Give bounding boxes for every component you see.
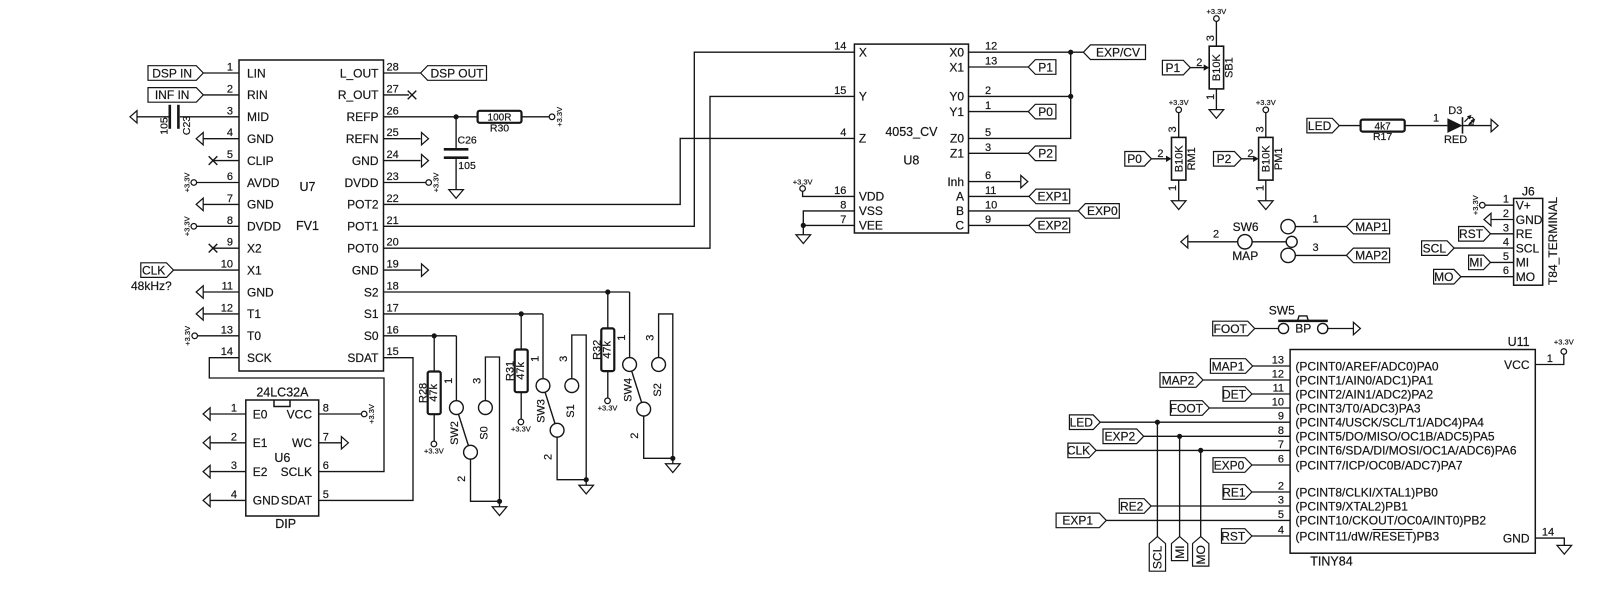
net label MAP1 at U11	[1210, 359, 1252, 374]
svg-text:+3.3V: +3.3V	[555, 107, 564, 127]
svg-text:17: 17	[387, 302, 399, 314]
wire SB1 pin1	[1215, 89, 1217, 110]
wire SW6 to MAP2	[1295, 254, 1346, 256]
label pin1 SW2	[443, 378, 455, 384]
wire U7 pin10	[174, 269, 240, 271]
svg-text:5: 5	[227, 149, 233, 161]
svg-text:11: 11	[1273, 383, 1284, 395]
svg-text:13: 13	[985, 56, 997, 68]
svg-text:EXP1: EXP1	[1062, 514, 1093, 528]
svg-text:GND: GND	[352, 154, 379, 168]
wire U7 pin23	[384, 182, 426, 184]
svg-text:7: 7	[227, 193, 233, 205]
svg-text:+3.3V: +3.3V	[182, 216, 191, 236]
svg-text:4: 4	[1503, 237, 1509, 249]
wire U7 pin4	[203, 138, 239, 140]
svg-text:1: 1	[530, 356, 542, 362]
trimmer SB1 body	[1209, 46, 1235, 89]
svg-text:C26: C26	[458, 134, 477, 146]
svg-text:P2: P2	[1217, 152, 1232, 166]
IC U6 24LC32A body	[246, 386, 319, 531]
net flag MO	[1193, 537, 1209, 567]
switch SW6 contact1 circle	[1281, 219, 1295, 233]
wire J6 pin1	[1485, 204, 1514, 206]
svg-text:9: 9	[227, 237, 233, 249]
svg-text:SW4: SW4	[622, 378, 634, 402]
connector J6 body	[1514, 184, 1560, 285]
wire SW5 out	[1328, 328, 1353, 330]
open arrow Inh	[1021, 175, 1028, 187]
svg-text:4: 4	[1278, 525, 1284, 537]
net label EXP0 at U11	[1213, 458, 1252, 473]
svg-text:1: 1	[616, 335, 628, 341]
wire LED to R17	[1339, 125, 1360, 127]
svg-text:TINY84: TINY84	[1310, 555, 1352, 569]
svg-text:1: 1	[1167, 185, 1179, 191]
svg-text:S1: S1	[364, 307, 379, 321]
junction SW4 ground	[670, 456, 675, 461]
label BP	[1295, 322, 1311, 336]
svg-text:Z0: Z0	[950, 132, 964, 146]
svg-text:T84_TERMINAL: T84_TERMINAL	[1546, 197, 1560, 285]
wire R28 pullup top	[433, 336, 435, 372]
wire U7 pin13	[198, 335, 240, 337]
svg-text:2: 2	[456, 476, 468, 482]
label S2 net name	[652, 383, 664, 396]
wire U6 pin3	[210, 471, 246, 473]
wire J6 pin2	[1491, 219, 1514, 221]
svg-text:25: 25	[387, 127, 399, 139]
svg-text:P1: P1	[1038, 60, 1053, 74]
svg-text:27: 27	[387, 83, 399, 95]
svg-text:15: 15	[834, 85, 846, 97]
wire U7 pin12	[203, 313, 239, 315]
svg-text:13: 13	[1272, 355, 1284, 367]
IC U8 4053_CV body	[854, 44, 968, 233]
svg-text:8: 8	[227, 215, 233, 227]
open arrow pin7 GND	[196, 198, 203, 210]
wire POT0 to U8 Y	[384, 96, 855, 248]
overline RESET	[1373, 529, 1413, 531]
wire REFP	[384, 116, 550, 118]
switch SW5 button	[1298, 316, 1308, 320]
wire U7 pin19	[384, 269, 421, 271]
wire U11 FOOT	[1209, 407, 1290, 409]
svg-text:(PCINT10/CKOUT/OC0A/INT0)PB2: (PCINT10/CKOUT/OC0A/INT0)PB2	[1295, 514, 1486, 528]
label pin1 SW3	[530, 356, 542, 362]
svg-text:E2: E2	[253, 465, 268, 479]
label pin3 SW6	[1312, 242, 1318, 254]
svg-text:VCC: VCC	[287, 407, 313, 421]
svg-text:SW3: SW3	[536, 399, 548, 423]
open arrow U6 pin2	[203, 437, 210, 449]
wire U8 VEE	[803, 224, 854, 226]
wire POT1 to U8 X	[384, 52, 855, 226]
wire U11 LED	[1100, 421, 1290, 423]
svg-text:CLK: CLK	[142, 263, 165, 277]
svg-text:DVDD: DVDD	[247, 220, 281, 234]
svg-text:9: 9	[1278, 411, 1284, 423]
label pin3 SW3	[558, 356, 570, 362]
svg-text:3: 3	[1278, 495, 1284, 507]
svg-text:13: 13	[221, 324, 233, 336]
+3.3V above SB1	[1206, 7, 1226, 21]
wire R_OUT stub	[384, 94, 410, 96]
wire MID left	[137, 116, 169, 118]
svg-text:RE1: RE1	[1222, 485, 1246, 499]
wire SB1 wiper	[1190, 67, 1205, 69]
wire U6 pin1	[210, 413, 246, 415]
switch SW5 right contact	[1318, 323, 1328, 333]
svg-text:R30: R30	[490, 123, 509, 135]
wire R32 pullup top	[607, 292, 609, 328]
svg-text:LED: LED	[1070, 416, 1094, 430]
net label P2 at U8	[1028, 146, 1056, 161]
no-connect R_OUT	[408, 91, 417, 100]
net label MI at J6	[1469, 255, 1491, 270]
svg-text:DET: DET	[1222, 387, 1247, 401]
wire U11 RE1	[1252, 491, 1290, 493]
junction SW2 ground	[497, 499, 502, 504]
U6 pin names and numbers	[231, 403, 329, 508]
wire U7 pin6	[197, 182, 239, 184]
svg-text:J6: J6	[1522, 184, 1535, 198]
svg-text:Y: Y	[859, 90, 867, 104]
label pin2 SW2	[456, 476, 468, 482]
svg-text:(PCINT6/SDA/DI/MOSI/OC1A/ADC6): (PCINT6/SDA/DI/MOSI/OC1A/ADC6)PA6	[1295, 444, 1516, 458]
svg-text:14: 14	[1542, 526, 1554, 538]
svg-text:3: 3	[645, 335, 657, 341]
svg-text:GND: GND	[247, 198, 274, 212]
svg-text:3: 3	[231, 460, 237, 472]
switch SW4 contact 1 circle	[623, 358, 637, 372]
wiper arrowhead SB1	[1204, 64, 1210, 70]
svg-text:D3: D3	[1448, 105, 1462, 117]
svg-text:1: 1	[1433, 112, 1439, 124]
svg-text:P0: P0	[1038, 105, 1053, 119]
svg-text:PM1: PM1	[1273, 147, 1285, 170]
switch SW2 contact 1 circle	[450, 401, 464, 415]
label SW2	[449, 421, 461, 445]
svg-text:SDAT: SDAT	[281, 494, 313, 508]
svg-text:47k: 47k	[602, 340, 614, 358]
svg-text:1: 1	[1312, 213, 1318, 225]
svg-text:48kHz?: 48kHz?	[131, 279, 172, 293]
open arrow J6 GND	[1484, 213, 1491, 225]
svg-text:EXP0: EXP0	[1087, 204, 1118, 218]
wire Y0	[969, 95, 1071, 97]
open arrow MID	[130, 111, 137, 123]
svg-text:Z1: Z1	[950, 147, 964, 161]
svg-text:(PCINT5/DO/MISO/OC1B/ADC5)PA5: (PCINT5/DO/MISO/OC1B/ADC5)PA5	[1295, 430, 1494, 444]
svg-text:S2: S2	[364, 285, 379, 299]
wire SCK to SCLK	[209, 358, 384, 472]
net label P1 at U8	[1028, 60, 1056, 75]
wire S1 net	[384, 313, 544, 315]
svg-text:22: 22	[387, 193, 399, 205]
svg-text:(PCINT0/AREF/ADC0)PA0: (PCINT0/AREF/ADC0)PA0	[1295, 359, 1438, 373]
wire PM1 pin3	[1265, 113, 1267, 138]
svg-text:U11: U11	[1508, 335, 1530, 349]
+3.3V on U8 VDD	[793, 177, 813, 191]
svg-text:6: 6	[1278, 454, 1284, 466]
+3.3V on REFP	[549, 107, 564, 127]
label pin3 SW2	[471, 378, 483, 384]
svg-text:5: 5	[985, 127, 991, 139]
svg-text:+3.3V: +3.3V	[1554, 337, 1574, 346]
svg-text:GND: GND	[352, 263, 379, 277]
+3.3V on U6 VCC	[361, 404, 376, 424]
open arrow SW6	[1181, 236, 1188, 248]
resistor R31	[505, 350, 528, 393]
svg-text:SCL: SCL	[1423, 241, 1447, 255]
svg-text:SDAT: SDAT	[347, 351, 379, 365]
wire U7 pin2	[203, 94, 239, 96]
wire RM1 pin3	[1178, 113, 1180, 138]
wiper arrowhead RM1	[1166, 156, 1172, 162]
svg-text:6: 6	[323, 460, 329, 472]
svg-text:+3.3V: +3.3V	[1169, 98, 1189, 107]
svg-text:1: 1	[231, 403, 237, 415]
svg-text:SW2: SW2	[449, 421, 461, 445]
wire B to EXP0	[969, 210, 1079, 212]
label pin2 RM1	[1157, 148, 1163, 160]
wire U11 EXP0	[1252, 464, 1290, 466]
svg-text:4: 4	[840, 127, 846, 139]
svg-text:B10K: B10K	[1174, 145, 1186, 173]
svg-text:3: 3	[1167, 126, 1179, 132]
svg-text:2: 2	[227, 83, 233, 95]
svg-text:FOOT: FOOT	[1170, 401, 1204, 415]
svg-text:SW6: SW6	[1233, 220, 1259, 234]
J6 pin names and numbers	[1503, 194, 1543, 284]
svg-text:SCLK: SCLK	[281, 465, 312, 479]
svg-text:EXP1: EXP1	[1038, 190, 1069, 204]
text 48kHz?	[131, 279, 172, 293]
IC U11 TINY84 body	[1290, 335, 1535, 569]
svg-text:DIP: DIP	[275, 517, 296, 531]
svg-text:(PCINT7/ICP/OC0B/ADC7)PA7: (PCINT7/ICP/OC0B/ADC7)PA7	[1295, 458, 1462, 472]
svg-text:Inh: Inh	[947, 175, 964, 189]
net label EXP1 at U11	[1056, 513, 1106, 528]
net flag SCL	[1149, 537, 1165, 572]
svg-text:RST: RST	[1459, 227, 1484, 241]
open arrow SW5 out	[1353, 322, 1360, 334]
wire U7 pin9 stub	[213, 247, 239, 249]
svg-text:3: 3	[471, 378, 483, 384]
svg-text:16: 16	[387, 324, 399, 336]
svg-text:+3.3V: +3.3V	[1206, 7, 1226, 16]
svg-text:S2: S2	[652, 383, 664, 396]
wire U8 VDD	[803, 191, 855, 196]
wire SW6 pin2	[1188, 241, 1238, 243]
switch SW2 contact 3 circle	[479, 401, 493, 415]
wire R31 bottom	[520, 392, 522, 419]
switch SW2 pole circle	[464, 445, 478, 459]
svg-text:REFN: REFN	[346, 132, 379, 146]
net label FOOT at U11	[1170, 401, 1210, 416]
svg-text:E0: E0	[253, 407, 268, 421]
svg-text:E1: E1	[253, 436, 268, 450]
svg-text:EXP2: EXP2	[1038, 219, 1069, 233]
switch SW6 common circle	[1286, 236, 1297, 247]
wire J6 pin6	[1461, 276, 1514, 278]
svg-text:3: 3	[227, 105, 233, 117]
wire Inh	[969, 181, 1021, 183]
svg-text:7: 7	[1278, 439, 1284, 451]
label pin1 SW4	[616, 335, 628, 341]
net label DSP OUT	[421, 66, 487, 81]
svg-text:POT2: POT2	[347, 198, 379, 212]
svg-text:12: 12	[1272, 369, 1284, 381]
svg-text:4: 4	[231, 489, 237, 501]
svg-text:SCK: SCK	[247, 351, 272, 365]
svg-text:P2: P2	[1038, 147, 1053, 161]
svg-text:11: 11	[222, 281, 233, 293]
svg-text:SCL: SCL	[1151, 545, 1165, 569]
net label RST at U11	[1221, 529, 1252, 544]
svg-text:Y0: Y0	[949, 90, 964, 104]
svg-text:MO: MO	[1516, 270, 1535, 284]
svg-text:+3.3V: +3.3V	[183, 326, 192, 346]
svg-text:LIN: LIN	[247, 66, 266, 80]
svg-text:2: 2	[543, 454, 555, 460]
ground below SW4	[666, 458, 681, 472]
svg-text:1: 1	[1503, 194, 1509, 206]
+3.3V above PM1	[1256, 98, 1276, 112]
svg-text:S0: S0	[479, 426, 491, 439]
svg-text:GND: GND	[247, 285, 274, 299]
label pin3 PM1	[1254, 126, 1266, 132]
wire U11 RE2	[1151, 505, 1290, 507]
switch SW4 contact 3 circle	[652, 358, 666, 372]
svg-text:3: 3	[1254, 126, 1266, 132]
svg-text:(PCINT3/T0/ADC3)PA3: (PCINT3/T0/ADC3)PA3	[1295, 401, 1420, 415]
svg-text:RE: RE	[1516, 227, 1533, 241]
svg-text:(PCINT4/USCK/SCL/T1/ADC4)PA4: (PCINT4/USCK/SCL/T1/ADC4)PA4	[1295, 416, 1484, 430]
junction MI	[1177, 434, 1182, 439]
svg-text:2: 2	[231, 431, 237, 443]
wire U6 pin2	[210, 442, 246, 444]
wire U7 pin8	[197, 225, 239, 227]
open arrow U6 pin1	[203, 408, 210, 420]
net label MO at J6	[1434, 269, 1461, 284]
svg-text:14: 14	[834, 41, 846, 53]
label S1 net name	[565, 404, 577, 417]
net label SCL at J6	[1422, 241, 1455, 256]
wire SB1 pin3	[1215, 21, 1217, 46]
svg-text:5: 5	[323, 489, 329, 501]
ground below C26	[449, 190, 464, 199]
label pin1 RM1	[1167, 185, 1179, 191]
switch SW4 pole circle	[637, 402, 651, 416]
svg-text:Y1: Y1	[949, 105, 964, 119]
ground below PM1	[1259, 201, 1274, 210]
wire PM1 wiper	[1241, 158, 1254, 160]
svg-text:6: 6	[1503, 265, 1509, 277]
wire R28 bottom	[433, 414, 435, 441]
net label MAP2 at U11	[1160, 373, 1203, 388]
svg-text:26: 26	[387, 105, 399, 117]
open arrow pin4 GND	[196, 133, 203, 145]
svg-text:4: 4	[227, 127, 233, 139]
net label EXP2 at U11	[1103, 429, 1144, 444]
U7 pin names and numbers	[221, 62, 399, 366]
svg-text:24LC32A: 24LC32A	[256, 386, 309, 400]
svg-text:+3.3V: +3.3V	[1471, 195, 1480, 215]
wire SW2 contact3 elbow	[485, 357, 499, 501]
svg-text:47k: 47k	[515, 362, 527, 380]
svg-text:AVDD: AVDD	[247, 176, 280, 190]
svg-text:8: 8	[323, 403, 329, 415]
wire Y1 to P0	[969, 111, 1029, 113]
svg-text:MI: MI	[1469, 256, 1482, 270]
wire U11 MAP2	[1203, 379, 1290, 381]
svg-text:6: 6	[985, 170, 991, 182]
net label RE2 at U11	[1119, 499, 1151, 514]
svg-text:2: 2	[1196, 57, 1202, 69]
label pin3 SB1	[1205, 35, 1217, 41]
ground below SW3	[579, 480, 594, 494]
svg-text:7: 7	[323, 431, 329, 443]
svg-text:Z: Z	[859, 132, 866, 146]
svg-text:+3.3V: +3.3V	[793, 177, 813, 186]
+3.3V on T0	[183, 326, 197, 346]
svg-text:MI: MI	[1173, 545, 1187, 558]
svg-text:DSP IN: DSP IN	[152, 66, 192, 80]
svg-text:1: 1	[227, 62, 233, 74]
switch SW5 bar	[1278, 320, 1328, 323]
svg-text:BP: BP	[1295, 322, 1311, 336]
svg-text:EXP2: EXP2	[1105, 430, 1136, 444]
svg-text:9: 9	[985, 214, 991, 226]
+3.3V below R28	[424, 441, 444, 456]
junction MO	[1198, 448, 1203, 453]
open arrow U6 pin3	[203, 465, 210, 477]
label pin1 PM1	[1254, 185, 1266, 191]
svg-text:11: 11	[985, 185, 996, 197]
svg-text:EXP/CV: EXP/CV	[1096, 46, 1140, 60]
trimmer PM1 body	[1259, 137, 1285, 180]
wire X0 to EXP/CV	[969, 51, 1084, 53]
wire DSP OUT	[384, 72, 421, 74]
svg-text:2: 2	[629, 433, 641, 439]
svg-text:6: 6	[227, 171, 233, 183]
svg-text:+3.3V: +3.3V	[598, 404, 618, 413]
svg-text:+3.3V: +3.3V	[432, 173, 441, 193]
junction SW3 ground	[584, 477, 589, 482]
wire REFN	[384, 138, 421, 140]
svg-text:WC: WC	[292, 436, 312, 450]
wire U11 CLK	[1096, 449, 1290, 451]
wire A to EXP1	[969, 195, 1030, 197]
wire X1 to P1	[969, 66, 1029, 68]
svg-text:3: 3	[1312, 242, 1318, 254]
svg-text:U8: U8	[903, 153, 919, 167]
label pin2 D3	[1468, 116, 1474, 128]
svg-text:5: 5	[1503, 251, 1509, 263]
svg-text:MI: MI	[1516, 256, 1529, 270]
net label P0 wiper	[1125, 152, 1152, 167]
svg-text:8: 8	[840, 199, 846, 211]
svg-text:3: 3	[1503, 222, 1509, 234]
svg-text:SB1: SB1	[1224, 57, 1236, 78]
svg-text:SW5: SW5	[1269, 304, 1295, 318]
open arrow U6 WC	[341, 437, 348, 449]
junction X0	[1068, 50, 1073, 55]
svg-text:+3.3V: +3.3V	[511, 425, 531, 434]
net label LED	[1307, 118, 1339, 133]
